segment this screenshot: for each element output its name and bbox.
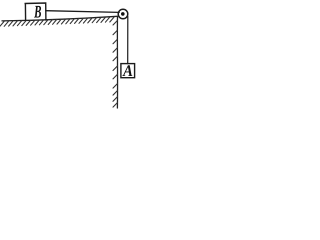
pulley <box>118 9 128 19</box>
string pulley to A <box>127 16 129 63</box>
wall line <box>116 17 118 109</box>
block B <box>25 3 46 21</box>
rope B to pulley <box>46 11 119 13</box>
block A <box>121 64 135 78</box>
pulley axle <box>121 12 125 16</box>
label A <box>122 65 132 76</box>
label B <box>34 6 41 18</box>
wall hatching <box>113 21 117 108</box>
ground hatching <box>0 17 114 26</box>
ground (table surface) line <box>2 16 117 21</box>
